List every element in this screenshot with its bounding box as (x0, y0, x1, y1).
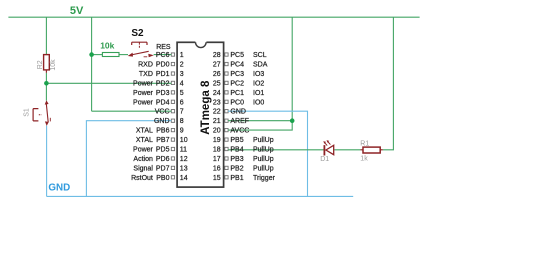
svg-text:6: 6 (180, 99, 184, 106)
wire GND pin8 (86, 121, 171, 197)
IC pin pads left (pins 1-14) (171, 53, 174, 179)
svg-text:10k: 10k (100, 41, 114, 51)
svg-text:D1: D1 (320, 156, 329, 163)
op IC U1 ATmega 8 body (177, 41, 224, 187)
svg-text:PC0: PC0 (230, 99, 244, 106)
svg-text:14: 14 (180, 175, 188, 182)
wire AREF pin21 (228, 120, 292, 122)
wire 5V drop to 10k junction and VCC (91, 17, 93, 111)
svg-text:17: 17 (213, 156, 221, 163)
wire PB4 pin18 to LED (228, 149, 324, 151)
svg-text:1: 1 (180, 52, 184, 59)
LED D1 (320, 140, 334, 163)
svg-text:PD4: PD4 (156, 99, 170, 106)
svg-text:PD7: PD7 (156, 165, 170, 172)
svg-text:PD1: PD1 (156, 71, 170, 78)
svg-text:24: 24 (213, 90, 221, 97)
svg-text:16: 16 (213, 165, 221, 172)
IC pin numbers right 28-15 (213, 52, 221, 182)
svg-text:Power: Power (133, 90, 154, 97)
svg-text:R1: R1 (360, 140, 369, 147)
svg-text:AVCC: AVCC (230, 128, 249, 135)
wire GND bottom rail (47, 195, 354, 197)
wire S1 to GND rail (46, 126, 48, 197)
svg-text:Power: Power (133, 147, 154, 154)
svg-text:PC2: PC2 (230, 80, 244, 87)
svg-text:GND: GND (154, 118, 170, 125)
svg-text:27: 27 (213, 62, 221, 69)
resistor R1 (360, 140, 383, 162)
svg-text:PC3: PC3 (230, 71, 244, 78)
wire VCC pin7 (92, 110, 172, 112)
switch S2 (128, 28, 154, 57)
net names left column (131, 44, 171, 182)
node junction AREF/AVCC (290, 118, 295, 123)
pin port names left column (154, 52, 170, 182)
svg-text:PullUp: PullUp (253, 156, 274, 163)
wire 5V drop to AREF (291, 17, 293, 121)
svg-text:22: 22 (213, 109, 221, 116)
svg-text:12: 12 (180, 156, 188, 163)
wire S2 to pin1 RES (154, 54, 172, 56)
IC pin pads right (pins 28-15) (225, 53, 228, 179)
svg-text:GND: GND (48, 183, 70, 194)
wire GND pin22 (228, 111, 307, 196)
wire LED to R1 (334, 149, 360, 151)
wire junction down to S1 (45, 83, 47, 100)
svg-text:SCL: SCL (253, 52, 267, 59)
pin port names right column (230, 52, 249, 182)
svg-text:2: 2 (180, 62, 184, 69)
svg-text:IO1: IO1 (253, 90, 264, 97)
svg-text:26: 26 (213, 71, 221, 78)
svg-text:AREF: AREF (230, 118, 249, 125)
svg-text:4: 4 (180, 80, 184, 87)
svg-text:PB7: PB7 (156, 137, 169, 144)
svg-text:PB0: PB0 (156, 175, 169, 182)
svg-text:21: 21 (213, 118, 221, 125)
svg-text:PB5: PB5 (230, 137, 243, 144)
svg-text:SDA: SDA (253, 62, 268, 69)
wire 5V rail (8, 16, 419, 18)
svg-text:PullUp: PullUp (253, 165, 274, 172)
svg-text:25: 25 (213, 80, 221, 87)
svg-text:10: 10 (180, 137, 188, 144)
svg-text:S1: S1 (24, 108, 31, 117)
svg-text:Signal: Signal (133, 165, 153, 172)
IC pin numbers left 1-14 (180, 52, 188, 182)
svg-text:9: 9 (180, 128, 184, 135)
node junction R2/PD2/S1 (44, 81, 49, 86)
svg-text:RstOut: RstOut (131, 175, 153, 182)
svg-text:18: 18 (213, 147, 221, 154)
svg-text:19: 19 (213, 137, 221, 144)
svg-text:PD2: PD2 (156, 80, 170, 87)
svg-text:10k: 10k (50, 59, 57, 71)
wire R1 to 5V drop (383, 17, 394, 150)
svg-text:IO0: IO0 (253, 99, 264, 106)
svg-text:R2: R2 (37, 60, 44, 69)
svg-text:15: 15 (213, 175, 221, 182)
wire 5V drop to R2 (45, 17, 47, 54)
svg-text:PB1: PB1 (230, 175, 243, 182)
switch S1 (24, 100, 51, 126)
svg-text:11: 11 (180, 147, 187, 154)
svg-text:PB3: PB3 (230, 156, 243, 163)
svg-text:PullUp: PullUp (253, 147, 274, 154)
svg-text:GND: GND (230, 109, 246, 116)
svg-text:XTAL: XTAL (136, 137, 153, 144)
svg-text:5V: 5V (70, 5, 84, 17)
svg-text:XTAL: XTAL (136, 128, 153, 135)
svg-text:RXD: RXD (138, 62, 153, 69)
svg-text:VCC: VCC (155, 109, 170, 116)
svg-text:5: 5 (180, 90, 184, 97)
svg-text:28: 28 (213, 52, 221, 59)
resistor 10k pull-up (100, 41, 119, 57)
svg-text:Trigger: Trigger (253, 175, 276, 182)
net names right column (253, 52, 276, 182)
svg-text:IO2: IO2 (253, 80, 264, 87)
svg-text:23: 23 (213, 99, 221, 106)
svg-text:PullUp: PullUp (253, 137, 274, 144)
wire junction to pin4 PD2 (46, 82, 171, 84)
svg-text:PC4: PC4 (230, 62, 244, 69)
svg-text:20: 20 (213, 128, 221, 135)
svg-text:PB4: PB4 (230, 147, 243, 154)
wire 10k to S2 (119, 54, 128, 56)
svg-text:PB6: PB6 (156, 128, 169, 135)
svg-text:S2: S2 (131, 28, 144, 39)
svg-text:Power: Power (133, 80, 154, 87)
svg-text:Power: Power (133, 99, 154, 106)
svg-text:3: 3 (180, 71, 184, 78)
svg-text:TXD: TXD (139, 71, 153, 78)
svg-text:PD6: PD6 (156, 156, 170, 163)
svg-text:PC5: PC5 (230, 52, 244, 59)
svg-text:ATmega 8: ATmega 8 (200, 80, 212, 135)
svg-text:PD5: PD5 (156, 147, 170, 154)
svg-text:8: 8 (180, 118, 184, 125)
svg-text:PD3: PD3 (156, 90, 170, 97)
svg-text:PD0: PD0 (156, 62, 170, 69)
wire AVCC pin20 (228, 121, 292, 130)
svg-text:Action: Action (133, 156, 153, 163)
svg-text:7: 7 (180, 109, 184, 116)
svg-text:PC6: PC6 (156, 52, 170, 59)
svg-text:13: 13 (180, 165, 188, 172)
resistor R2 (37, 55, 57, 73)
wire R2 bottom to junction (45, 73, 47, 84)
svg-text:PC1: PC1 (230, 90, 244, 97)
svg-text:PB2: PB2 (230, 165, 243, 172)
svg-text:RES: RES (156, 44, 171, 51)
svg-text:IO3: IO3 (253, 71, 264, 78)
svg-text:1k: 1k (360, 155, 368, 162)
node junction 10k/VCC (89, 52, 94, 57)
wire 10k left lead (92, 54, 103, 56)
